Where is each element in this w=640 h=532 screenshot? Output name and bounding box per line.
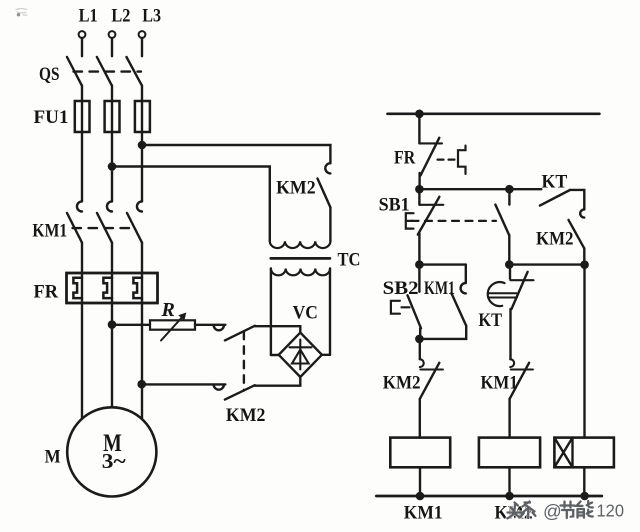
button SB1 NC upper lead xyxy=(418,189,420,205)
wire junction to resistor R xyxy=(112,324,150,326)
wire phase3 QS to KM1 (through fuse) xyxy=(141,85,143,201)
svg-text:@: @ xyxy=(543,501,562,522)
wire node D to KT branch xyxy=(509,263,584,265)
thermal relay FR heater element 1 xyxy=(73,278,82,298)
coil KM2 xyxy=(479,438,540,468)
wire SB1 NO pole to node D xyxy=(508,235,510,264)
wire bridge AC left xyxy=(271,354,279,356)
wire phase1 KM1 to motor xyxy=(81,243,83,419)
svg-text:120: 120 xyxy=(597,501,625,521)
motor M circle xyxy=(67,407,156,496)
button SB1 link to NO pole (dashed) xyxy=(412,220,497,222)
coil KT delay X box xyxy=(554,438,572,468)
resistor R body xyxy=(150,320,195,329)
svg-text:KM2: KM2 xyxy=(383,372,421,393)
wire TC secondary right leg xyxy=(329,269,331,355)
resistor R adjustment arrow xyxy=(161,315,185,341)
junction node A right xyxy=(506,186,512,192)
wire KT NO blade to corner xyxy=(570,190,584,210)
watermark halo tiao xyxy=(521,502,535,519)
junction phase3 to KM2 branch xyxy=(139,142,145,148)
svg-text:KM2: KM2 xyxy=(536,229,574,250)
contactor KM2 power contact blade xyxy=(318,179,331,208)
button SB2 actuator xyxy=(391,301,410,314)
contactor KM1 aux NO blade xyxy=(452,293,467,325)
junction phase2 to resistor branch xyxy=(109,322,115,328)
relay FR NC contact blade xyxy=(421,138,440,176)
watermark char neng xyxy=(577,501,593,518)
fuse FU1 pole 1 xyxy=(75,101,90,132)
contactor KM2 NC aux fixed arc xyxy=(420,359,424,367)
svg-text:FR: FR xyxy=(394,148,415,169)
wire coil KT to bottom rail xyxy=(583,467,585,496)
wire phase2 KM1 to motor xyxy=(111,243,113,408)
wire KT NC to KM1 NC xyxy=(509,309,511,359)
svg-text:KM1: KM1 xyxy=(424,278,455,299)
wire L1 drop to QS xyxy=(81,38,83,56)
rectifier VC diode cathode bar xyxy=(290,346,312,348)
svg-text:KT: KT xyxy=(542,171,568,192)
wire bridge AC right xyxy=(322,354,330,356)
watermark char tou xyxy=(507,503,521,519)
button SB1 NC blade xyxy=(418,197,440,235)
wire phase3 KM1 to motor xyxy=(141,243,143,419)
junction coil KM1 / bottom rail xyxy=(417,493,423,499)
watermark char tiao xyxy=(521,502,535,519)
wire KM2 NC to coil KM1 xyxy=(419,399,421,438)
fuse FU1 pole 3 xyxy=(135,101,150,132)
node A horizontal wire xyxy=(420,188,542,190)
wire KM1 NC to coil KM2 xyxy=(508,399,510,438)
relay FR trip element xyxy=(458,146,466,174)
svg-text:R: R xyxy=(161,299,175,321)
svg-text:TC: TC xyxy=(338,249,361,270)
switch QS mechanical link (dashed) xyxy=(74,70,142,72)
svg-text:KM1: KM1 xyxy=(32,221,67,242)
watermark char jie xyxy=(561,502,575,519)
wire SB2 to node C xyxy=(419,328,421,339)
thermal relay FR enclosure xyxy=(67,273,158,303)
contactor KM1 pole 1 blade xyxy=(67,213,82,243)
wire KM2 upper contact to bridge plus xyxy=(255,326,300,332)
junction coil KM2 / bottom rail xyxy=(506,493,512,499)
relay KT NC delayed upper lead xyxy=(509,265,511,279)
contactor KM2 upper contact blade xyxy=(225,326,255,341)
rectifier VC diode cathode lead xyxy=(299,340,301,370)
svg-text:KM1: KM1 xyxy=(481,372,518,393)
button SB1 actuator xyxy=(406,213,414,228)
contactor KM1 pole 2 fixed-contact arc xyxy=(107,201,112,211)
wire FR contact to node A xyxy=(418,173,420,189)
contactor KM2 NC aux blade xyxy=(420,363,440,399)
relay KT delay parachute chords xyxy=(488,293,517,297)
contactor KM2 power contact fixed arc xyxy=(325,163,330,173)
wire node E to coil KT xyxy=(583,265,585,438)
junction node E xyxy=(582,262,588,268)
wire KM2 power contact to TC primary xyxy=(329,207,331,241)
contactor KM2 NO right fixed arc xyxy=(580,209,584,217)
transformer TC primary winding xyxy=(270,241,331,248)
wire coil KM1 to bottom rail xyxy=(419,467,421,496)
control circuit bottom rail xyxy=(376,495,602,498)
button SB2 NO upper lead xyxy=(418,265,420,292)
relay KT NC contact bar xyxy=(510,279,533,281)
svg-text:L2: L2 xyxy=(111,5,130,26)
wire TC secondary left leg xyxy=(270,269,272,356)
button SB1 NC contact bar xyxy=(419,204,443,206)
button SB1 NO pole blade xyxy=(495,205,509,236)
svg-text:VC: VC xyxy=(293,303,318,324)
contactor KM1 pole 1 fixed-contact arc xyxy=(77,201,82,211)
svg-text:M: M xyxy=(45,447,61,468)
wire KM1 aux to branch bottom xyxy=(419,326,466,339)
scan smudge top-left xyxy=(16,9,27,17)
wire node B to KM1 aux branch xyxy=(419,263,465,265)
contactor KM1 aux NO fixed arc xyxy=(461,283,466,293)
control circuit top rail xyxy=(388,112,600,115)
contactor KM1 NC aux blade xyxy=(510,363,529,399)
terminal L2 xyxy=(109,31,116,38)
fuse FU1 pole 2 xyxy=(105,101,120,132)
relay KT NO contact blade xyxy=(540,190,570,206)
rectifier VC bridge diamond xyxy=(279,333,322,377)
wire SB1 to node B xyxy=(418,233,420,265)
resistor R arrowhead xyxy=(178,313,186,321)
thermal relay FR heater element 2 xyxy=(103,278,112,298)
svg-text:KM2: KM2 xyxy=(276,177,316,198)
wire junction to KM2 lower contact xyxy=(142,383,226,385)
wire phase2 QS to KM1 (through fuse) xyxy=(111,85,113,201)
relay FR NC contact bar xyxy=(419,142,442,144)
svg-text:FR: FR xyxy=(34,281,59,302)
wire phase1 QS to KM1 (through fuse) xyxy=(81,85,83,201)
watermark halo tou xyxy=(507,503,521,519)
transformer TC secondary winding xyxy=(271,269,330,276)
wire tap phase3 to power KM2 contact xyxy=(142,145,330,163)
svg-text:KM1: KM1 xyxy=(404,502,443,523)
contactor KM2 NC aux bar xyxy=(420,368,443,370)
switch QS pole 3 blade xyxy=(127,57,142,85)
contactor KM1 pole 3 fixed-contact arc xyxy=(137,201,142,211)
contactor KM2 lower contact fixed arc xyxy=(214,385,224,390)
svg-text:3~: 3~ xyxy=(102,449,126,473)
wire tap phase2 to TC primary xyxy=(112,167,270,242)
terminal L1 xyxy=(79,31,86,38)
wire L2 drop to QS xyxy=(111,38,113,56)
junction node C xyxy=(416,336,422,342)
wire resistor to KM2 upper contact xyxy=(195,324,225,326)
wire coil KM2 to bottom rail xyxy=(508,467,510,496)
junction top rail / FR contact xyxy=(416,111,422,117)
contactor KM1 pole 3 blade xyxy=(127,213,142,243)
junction node D xyxy=(506,262,512,268)
contactor KM1 mechanical link (dashed) xyxy=(73,227,135,229)
contactor KM1 NC aux bar xyxy=(511,368,533,370)
terminal L3 xyxy=(139,31,146,38)
thermal relay FR heater element 3 xyxy=(133,278,142,298)
contactor KM1 pole 2 blade xyxy=(97,213,112,243)
svg-text:SB2: SB2 xyxy=(383,278,419,299)
junction node A left xyxy=(416,186,422,192)
wire KM2 lower contact to bridge minus xyxy=(255,377,300,386)
junction node B xyxy=(416,262,422,268)
button SB2 NO blade xyxy=(408,295,422,328)
switch QS pole 2 blade xyxy=(97,57,112,85)
relay KT delay parachute arc xyxy=(488,282,505,306)
contactor KM2 link (dashed) xyxy=(243,332,245,391)
svg-text:QS: QS xyxy=(39,64,60,85)
svg-text:L1: L1 xyxy=(79,5,98,26)
relay KT NC blade xyxy=(512,272,528,309)
coil KT body xyxy=(554,438,614,468)
contactor KM2 NC aux upper lead xyxy=(419,339,421,359)
wire rail to FR contact xyxy=(418,114,420,144)
wire KM2 NO blade to node E xyxy=(583,248,585,264)
junction phase2 to TC branch xyxy=(109,163,115,169)
contactor KM2 NO right blade xyxy=(569,220,585,249)
coil KM1 xyxy=(390,438,450,468)
switch QS pole 1 blade xyxy=(67,57,82,85)
rectifier VC diode triangle xyxy=(292,350,309,364)
svg-text:L3: L3 xyxy=(142,5,161,26)
junction phase3 to KM2 lower branch xyxy=(139,381,145,387)
svg-text:KT: KT xyxy=(478,310,502,331)
svg-text:SB1: SB1 xyxy=(379,194,410,215)
relay FR trip link (dashed) xyxy=(438,159,457,161)
svg-text:KM2: KM2 xyxy=(226,405,266,426)
transformer TC core xyxy=(271,257,330,260)
contactor KM2 lower contact blade xyxy=(225,385,255,399)
contactor KM1 aux NO upper lead xyxy=(465,265,467,283)
contactor KM2 upper contact fixed arc xyxy=(214,325,224,330)
svg-text:FU1: FU1 xyxy=(34,107,69,128)
button SB1 NO pole upper lead xyxy=(508,189,510,204)
contactor KM1 NC aux fixed arc xyxy=(510,359,514,367)
junction coil KT / bottom rail xyxy=(582,493,588,499)
wire L3 drop to QS xyxy=(141,38,143,56)
